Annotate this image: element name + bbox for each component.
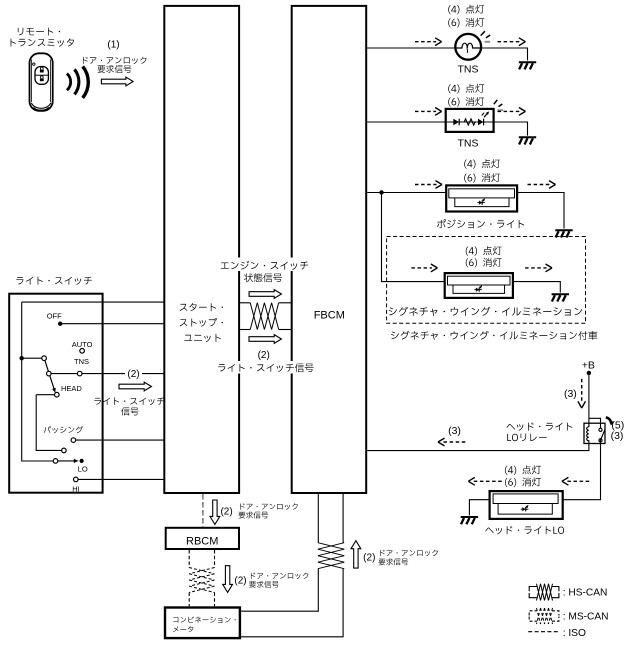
svg-text:AUTO: AUTO [72,340,93,349]
svg-text:(2): (2) [234,576,246,587]
svg-text:HEAD: HEAD [61,384,82,393]
svg-text:TNS: TNS [458,63,479,75]
svg-text:(3): (3) [448,425,461,437]
svg-text:(2): (2) [258,350,270,361]
svg-text:(3): (3) [564,388,577,400]
svg-text:TNS: TNS [458,138,479,150]
svg-text:(1): (1) [107,39,119,50]
svg-text:: HS-CAN: : HS-CAN [563,588,608,599]
svg-text:: ISO: : ISO [563,628,586,639]
svg-text:TNS: TNS [74,357,89,366]
svg-text:(2): (2) [363,553,375,564]
svg-text:(2): (2) [220,506,232,517]
svg-text:OFF: OFF [47,311,62,320]
svg-text:FBCM: FBCM [314,310,345,322]
svg-text:: MS-CAN: : MS-CAN [563,612,609,623]
svg-text:+B: +B [582,360,595,372]
svg-text:(3): (3) [611,430,624,442]
svg-text:LO: LO [78,464,88,473]
svg-text:HI: HI [72,485,80,494]
svg-text:(2): (2) [127,369,139,380]
svg-text:RBCM: RBCM [186,535,218,547]
